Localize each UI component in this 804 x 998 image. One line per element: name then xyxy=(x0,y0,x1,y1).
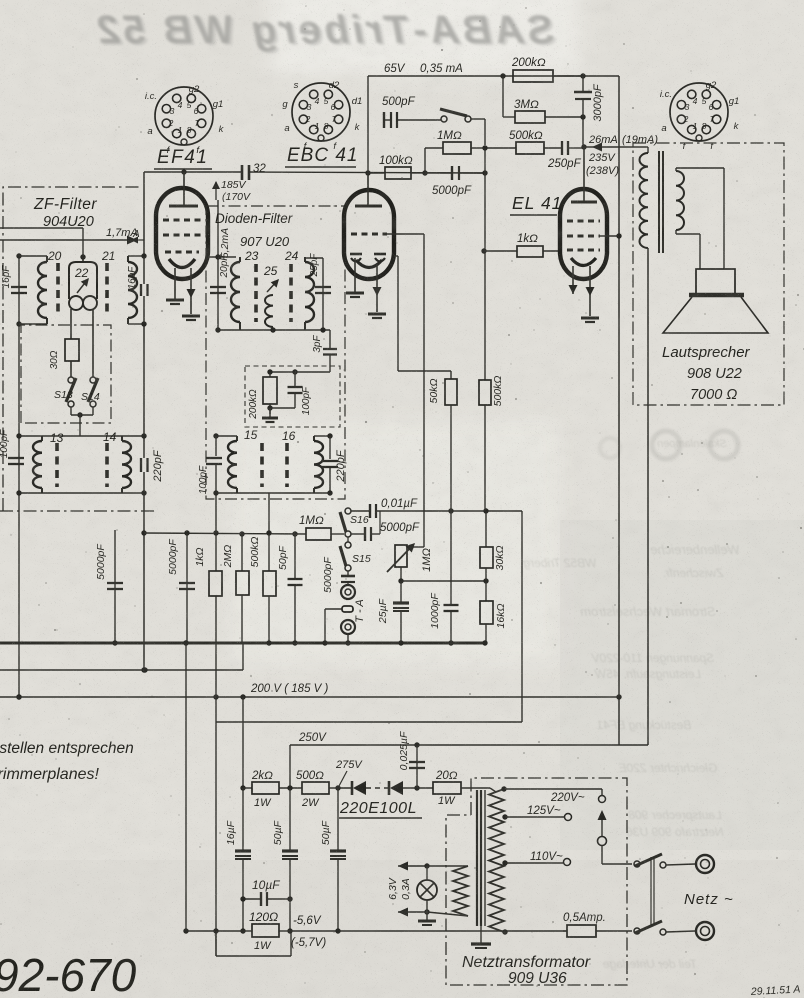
wire xyxy=(0,227,83,229)
EBC41 heater lead + ground xyxy=(376,264,378,312)
switch S14 xyxy=(90,377,96,383)
EF41 anode plate xyxy=(169,205,198,208)
capacitor 50uF 2 xyxy=(335,785,340,790)
core coil 24 xyxy=(289,264,293,322)
tube EL41 xyxy=(560,189,607,279)
coil 14 xyxy=(121,436,123,441)
resistor 50k xyxy=(398,370,451,372)
bias rail xyxy=(186,930,243,932)
EBC41 cathode xyxy=(356,260,382,268)
coil 20 xyxy=(19,255,47,257)
output transformer core xyxy=(658,151,660,253)
wire secondary bottom to speaker xyxy=(675,230,677,234)
switch sub-box dash-dot xyxy=(21,325,111,423)
EBC41 tube xyxy=(344,190,394,279)
wire 250V drop xyxy=(289,745,291,788)
bleed-through text rows (reverse side) xyxy=(650,542,739,557)
node 235V xyxy=(581,144,586,149)
jack T-A upper xyxy=(341,585,355,599)
switch common wire xyxy=(70,407,72,415)
resistor 2M xyxy=(241,534,243,571)
node EF41 anode xyxy=(181,169,186,174)
resistor 500k avc xyxy=(268,534,270,571)
EBC41 diode arcs xyxy=(351,258,361,262)
coil 24 xyxy=(304,257,306,262)
heater winding 6,3V xyxy=(453,866,468,916)
tap bottom xyxy=(502,929,507,934)
switch S13 xyxy=(68,377,74,383)
core coil 23 xyxy=(254,264,258,322)
resistor 200k xyxy=(500,73,505,78)
wire bias loop xyxy=(215,931,217,956)
resistor 1M top xyxy=(425,147,443,149)
capacitor 100pF avc xyxy=(294,372,296,387)
resistor 20ohm 1W xyxy=(433,782,461,794)
EL41 grid g1 xyxy=(567,249,600,252)
bleed-through ghost socket rings xyxy=(652,431,680,459)
wire secondary top to speaker xyxy=(675,168,677,171)
wire grid node xyxy=(482,145,487,150)
capacitor 0,025uF xyxy=(414,785,419,790)
heater wires + arrows xyxy=(427,865,468,867)
bus AF ground rail xyxy=(0,642,486,645)
capacitor 5000pF left1 xyxy=(114,530,116,643)
EF41 grid g1 xyxy=(165,251,199,254)
capacitor 250pF xyxy=(561,141,563,155)
capacitor 100pF tank15 xyxy=(215,436,217,456)
EF41 anode lead xyxy=(183,172,185,206)
speaker frame bar xyxy=(689,293,744,298)
core coil 16 xyxy=(285,443,289,487)
tube socket EL41 xyxy=(670,83,728,141)
Dioden-Filter dashed box xyxy=(206,206,345,499)
capacitor 220pF tank16 xyxy=(329,436,331,459)
capacitor 10uF xyxy=(243,898,261,900)
tap 110V xyxy=(502,860,507,865)
coil 22 variable xyxy=(82,257,84,262)
Netztrafo dash-dot box xyxy=(446,778,627,985)
EBC41 diode plates xyxy=(350,253,362,256)
wire detector rail y533 xyxy=(144,533,306,534)
core coil 14 xyxy=(105,443,109,487)
capacitor 3000pF xyxy=(582,76,584,92)
wire coil24 top xyxy=(305,257,323,259)
wire y581 xyxy=(401,580,486,582)
tube socket EF41 xyxy=(155,87,213,145)
nodes xyxy=(16,253,21,258)
wire diode filter input xyxy=(208,256,236,258)
rectifier diode 2 xyxy=(366,787,389,789)
core coil 20 xyxy=(56,263,60,317)
capacitor 5000pF left2 xyxy=(186,533,188,643)
coil 15 xyxy=(236,436,238,441)
EBC41 anode lead xyxy=(367,173,369,206)
EF41 cathode lead + ground xyxy=(174,268,176,300)
resistor 1k grid stopper xyxy=(481,248,486,253)
tube EF41 xyxy=(156,188,208,279)
core coil 13 xyxy=(55,443,59,487)
EL41 cathode xyxy=(571,258,596,266)
core coil 21 xyxy=(105,263,109,317)
wire secondary tap xyxy=(268,493,270,533)
tube socket EBC41 xyxy=(292,83,350,141)
wire B+ vertical xyxy=(618,76,620,745)
node EBC41 anode xyxy=(365,170,370,175)
capacitor 5000pF tone xyxy=(351,533,364,535)
wire avc bottom + ground xyxy=(270,407,295,409)
EL41 grid g2 + screen wire xyxy=(567,235,600,238)
capacitor 220pF right xyxy=(140,458,142,472)
coil 25 coupling xyxy=(265,295,273,327)
core coil 15 xyxy=(260,443,264,487)
mains transformer core xyxy=(476,790,478,926)
wire bias feed xyxy=(242,697,244,788)
coil 21 xyxy=(128,255,144,257)
node xyxy=(184,530,189,535)
capacitor 100pF left xyxy=(8,457,24,459)
capacitor 25pF xyxy=(322,258,324,330)
jack sleeve contact xyxy=(342,606,353,612)
EF41 grid g2 xyxy=(163,234,201,237)
trimmer 32 xyxy=(241,165,244,180)
resistor 120ohm 1W xyxy=(240,928,245,933)
capacitor 3pF xyxy=(329,330,331,349)
mains terminal lower xyxy=(666,931,695,932)
wire screen feed xyxy=(217,200,219,330)
core ground xyxy=(480,926,482,943)
EBC41 grid wire out xyxy=(387,233,424,235)
wire tank bottom xyxy=(216,492,330,494)
resistor 1k cathode xyxy=(215,499,217,571)
capacitor 1000pF xyxy=(450,511,452,605)
speaker cone xyxy=(663,297,768,333)
potentiometer 1M volume xyxy=(395,545,407,567)
jack T-A lower xyxy=(341,620,355,634)
capacitor 16uF xyxy=(242,788,244,851)
capacitor 50uF 1 xyxy=(289,788,291,851)
mains switch upper xyxy=(634,861,640,867)
EL41 anode lead xyxy=(583,147,585,202)
wire EBC grid down xyxy=(423,234,425,547)
wire 250V rail xyxy=(290,744,648,746)
dial lamp xyxy=(417,880,437,900)
resistor 30 ohm xyxy=(65,339,79,361)
resistor 2k 1W xyxy=(240,785,245,790)
wire tank top 16 xyxy=(314,435,330,437)
lamp ground xyxy=(426,912,428,920)
wire 200V rail xyxy=(0,696,619,698)
speaker dash-dot box xyxy=(633,143,784,405)
resistor 16k xyxy=(485,581,487,601)
capacitor 5000pF jack xyxy=(347,571,349,575)
wire 65V rail xyxy=(368,75,619,77)
wire avc top xyxy=(270,371,330,373)
rectifier diode 1 xyxy=(329,787,352,789)
coil 23 xyxy=(239,257,241,262)
EF41 cathode xyxy=(169,259,195,268)
wire tank2 bottom xyxy=(19,492,146,494)
mains switch lower xyxy=(634,928,640,934)
speaker magnet xyxy=(696,269,735,294)
arrow 185V xyxy=(215,182,217,200)
resistor 500ohm 2W xyxy=(302,782,329,794)
wire anode to output transformer xyxy=(584,146,646,148)
output transformer primary xyxy=(646,146,648,148)
tap 125V xyxy=(502,814,507,819)
wire y722 rail xyxy=(216,721,522,723)
resistor 30k xyxy=(485,511,487,547)
capacitor 50pF xyxy=(294,534,296,579)
node 500ohm xyxy=(279,787,302,789)
mains transformer primary winding xyxy=(489,789,504,932)
wire switch to node xyxy=(471,118,485,120)
EBC41 diode lead + ground xyxy=(354,258,356,292)
AVC sub-box dashed xyxy=(245,366,340,427)
resistor 100k xyxy=(368,172,385,174)
capacitor 20pF xyxy=(210,286,226,288)
EL41 cathode lead xyxy=(572,266,574,294)
resistor 500k grid EL41 xyxy=(484,251,486,380)
wire pot bottom xyxy=(400,567,402,581)
EL41 anode plate xyxy=(571,201,597,204)
switch S15 xyxy=(345,542,351,548)
wire main vertical xyxy=(143,172,145,284)
EF41 grid g3 xyxy=(163,219,201,222)
node xyxy=(482,170,487,175)
coil 16 xyxy=(313,436,315,441)
capacitor 16pF left xyxy=(11,286,27,288)
wire junction xyxy=(580,73,585,78)
wire left vertical 186 xyxy=(185,643,187,931)
EF41 heater lead + ground xyxy=(190,268,192,314)
EBC41 anode plate xyxy=(355,205,382,208)
capacitor 5000pF coupling xyxy=(425,172,452,174)
ZF-Filter dash-dot box xyxy=(3,187,141,511)
switch linkage xyxy=(650,857,652,925)
EL41 heater lead + ground xyxy=(589,266,591,316)
coil 22 leads xyxy=(70,309,72,339)
wire tone cap to node xyxy=(379,511,381,534)
resistor 500k top xyxy=(487,147,516,149)
output transformer secondary xyxy=(676,171,684,230)
voltage selector xyxy=(601,812,603,836)
EBC41 grid xyxy=(351,233,387,236)
coil 13 xyxy=(41,436,43,441)
resistor 200k vertical xyxy=(269,372,271,377)
resistor 1M volume tap xyxy=(306,528,331,540)
bleed-through mirrored title SABA-Triberg WB 52 xyxy=(94,8,554,52)
mains terminal upper xyxy=(666,864,695,865)
EL41 grid g3 xyxy=(567,220,600,223)
capacitor 25uF xyxy=(400,581,402,603)
switch S16 xyxy=(345,508,351,514)
resistor 3M xyxy=(502,76,504,117)
node grid EBC41 xyxy=(422,170,427,175)
EBC41 cathode side lead xyxy=(394,255,398,257)
wire primary bottom B+ xyxy=(647,248,649,745)
wire left tank vertical xyxy=(18,256,20,697)
wire 0,01uF line xyxy=(351,510,369,512)
wire anode rail xyxy=(144,171,242,173)
wire tank2 top xyxy=(19,435,146,437)
switch S17 xyxy=(441,116,447,122)
wire diode filter bottom xyxy=(218,329,330,331)
capacitor 16pF right xyxy=(140,284,142,296)
capacitor 0,01uF xyxy=(369,504,371,518)
wire tank top 15 xyxy=(216,435,237,437)
tap 220V xyxy=(501,786,506,791)
wire rail y670 xyxy=(0,669,243,671)
